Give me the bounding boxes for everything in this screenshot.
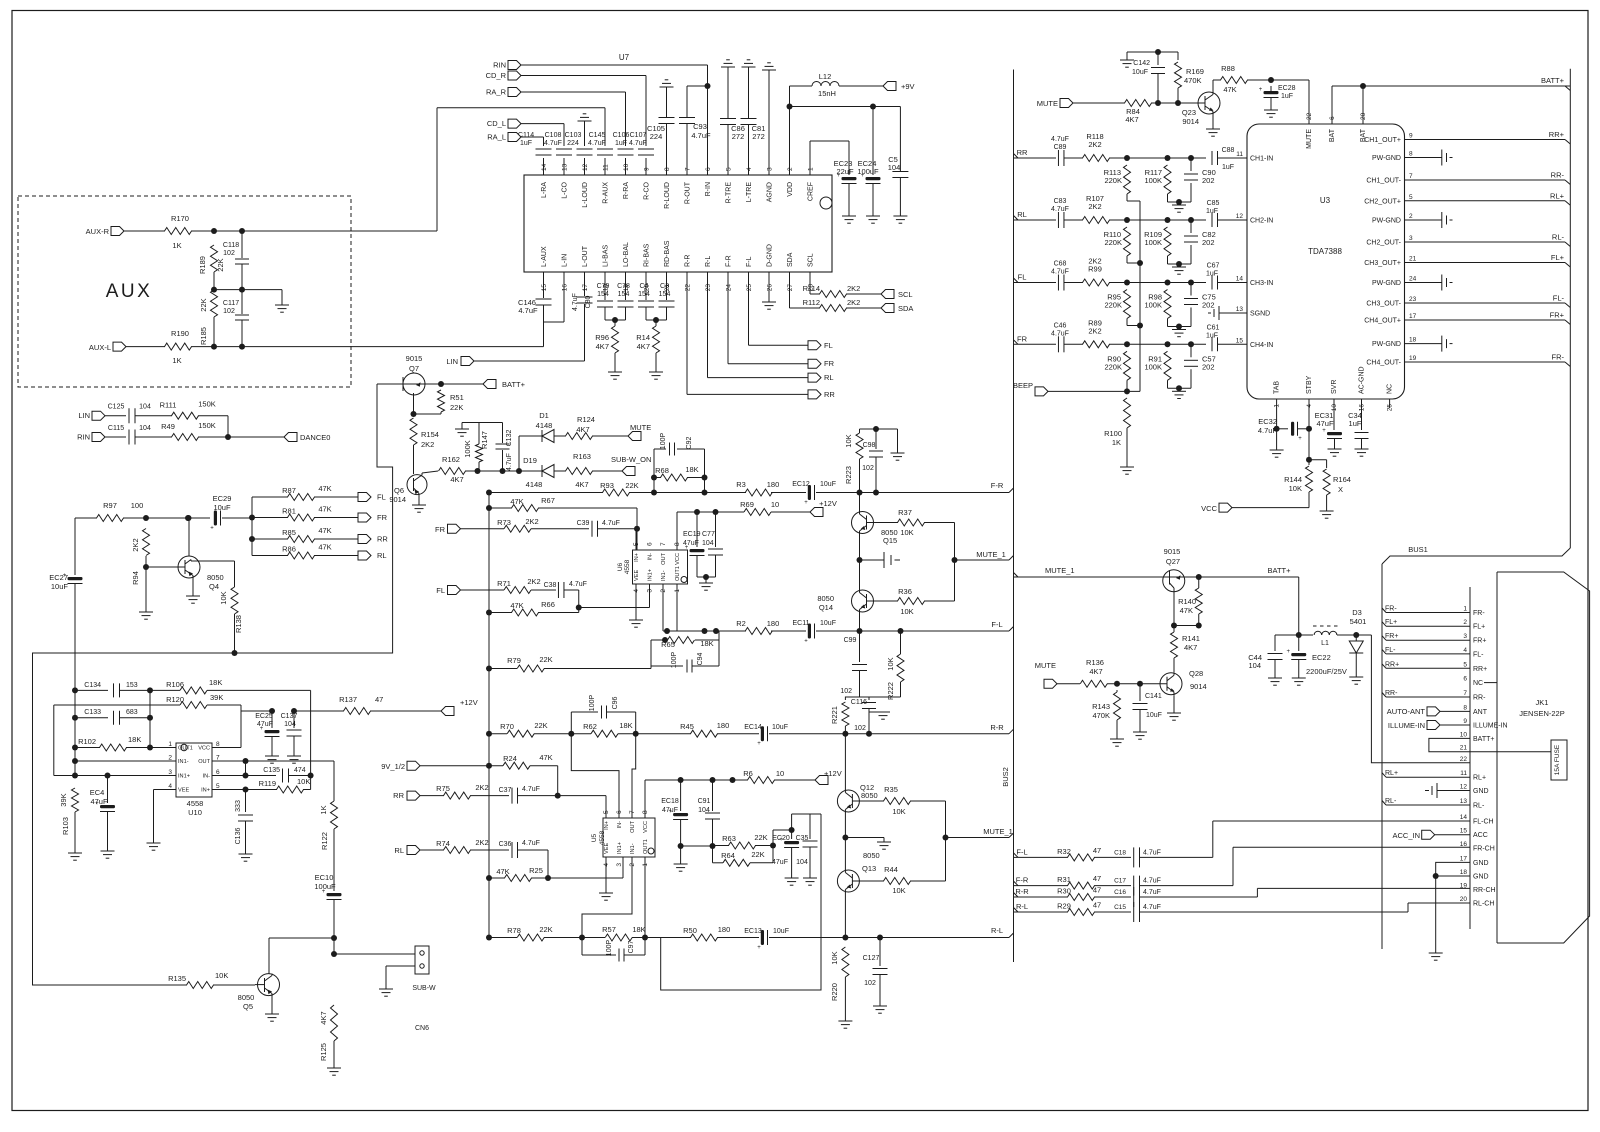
svg-text:10K: 10K [844, 434, 853, 447]
svg-text:104: 104 [796, 859, 808, 866]
svg-text:MUTE_1: MUTE_1 [976, 550, 1006, 559]
svg-text:FL-: FL- [1553, 294, 1565, 303]
svg-text:5: 5 [216, 783, 220, 790]
svg-text:C37: C37 [499, 787, 512, 794]
svg-text:U5: U5 [591, 833, 598, 842]
svg-text:1K: 1K [172, 241, 181, 250]
svg-text:SVR: SVR [1331, 380, 1338, 394]
svg-text:220K: 220K [1104, 176, 1122, 185]
svg-text:47K: 47K [318, 505, 331, 514]
svg-text:MUTE: MUTE [1037, 99, 1058, 108]
svg-text:17: 17 [582, 284, 589, 292]
svg-text:102: 102 [854, 725, 866, 732]
svg-text:C142: C142 [1133, 60, 1150, 67]
svg-text:FL-: FL- [1385, 647, 1396, 654]
svg-text:RR: RR [824, 390, 835, 399]
svg-text:7: 7 [660, 542, 667, 546]
svg-text:C145: C145 [589, 132, 606, 139]
svg-text:R63: R63 [722, 834, 736, 843]
svg-text:333: 333 [235, 800, 242, 812]
svg-text:8: 8 [1409, 151, 1413, 158]
svg-text:+: + [210, 526, 214, 532]
svg-text:9014: 9014 [1182, 117, 1199, 126]
svg-text:L-TRE: L-TRE [746, 182, 753, 203]
svg-text:C89: C89 [1054, 144, 1067, 151]
svg-text:JK1: JK1 [1536, 698, 1549, 707]
svg-text:180: 180 [718, 925, 731, 934]
svg-text:RL-: RL- [1473, 803, 1485, 810]
svg-text:R74: R74 [436, 839, 450, 848]
svg-text:47: 47 [1093, 886, 1101, 895]
svg-text:4.7uF: 4.7uF [1051, 136, 1069, 143]
svg-text:47uF: 47uF [772, 859, 788, 866]
svg-text:R-TRE: R-TRE [726, 182, 733, 204]
svg-text:5401: 5401 [1350, 617, 1367, 626]
svg-text:AUX-R: AUX-R [86, 227, 110, 236]
svg-text:R137: R137 [339, 695, 357, 704]
svg-text:19: 19 [1409, 355, 1417, 362]
svg-text:LIN: LIN [78, 411, 90, 420]
svg-text:R94: R94 [131, 571, 140, 585]
svg-text:L12: L12 [819, 72, 832, 81]
svg-text:C136: C136 [235, 828, 242, 845]
svg-text:R69: R69 [740, 500, 754, 509]
svg-text:4.7uF: 4.7uF [629, 140, 647, 147]
svg-text:10K: 10K [892, 807, 905, 816]
svg-text:104: 104 [139, 404, 151, 411]
svg-text:19: 19 [1460, 882, 1468, 889]
svg-text:1: 1 [808, 167, 815, 171]
svg-text:21: 21 [1460, 745, 1468, 752]
svg-text:17: 17 [1409, 313, 1417, 320]
svg-text:R162: R162 [442, 455, 460, 464]
svg-text:7: 7 [216, 755, 220, 762]
svg-text:R164: R164 [1333, 475, 1351, 484]
svg-text:SGND: SGND [1250, 311, 1270, 318]
svg-text:C94: C94 [697, 652, 704, 665]
svg-text:4.7uF: 4.7uF [1143, 878, 1161, 885]
svg-text:OUT1: OUT1 [675, 566, 681, 581]
svg-text:EC28: EC28 [1278, 85, 1296, 92]
svg-text:22K: 22K [539, 655, 552, 664]
svg-text:14: 14 [1236, 276, 1244, 283]
svg-text:ACC_IN: ACC_IN [1392, 831, 1420, 840]
svg-text:2K2: 2K2 [847, 298, 860, 307]
svg-text:RR+: RR+ [1385, 661, 1399, 668]
svg-text:FR: FR [824, 359, 835, 368]
svg-text:R138: R138 [234, 615, 243, 633]
svg-text:IN1-: IN1- [630, 843, 636, 854]
svg-text:Q23: Q23 [1182, 108, 1196, 117]
svg-text:+: + [757, 741, 761, 747]
svg-text:C125: C125 [108, 404, 125, 411]
svg-text:22uF: 22uF [836, 167, 854, 176]
svg-text:+: + [1322, 428, 1326, 434]
svg-text:4.7uF: 4.7uF [1143, 849, 1161, 856]
svg-text:8: 8 [1463, 704, 1467, 711]
svg-text:SUB-W: SUB-W [412, 985, 436, 992]
svg-text:C127: C127 [863, 955, 880, 962]
svg-text:MUTE: MUTE [1306, 129, 1313, 149]
svg-text:104: 104 [139, 425, 151, 432]
svg-text:EC20: EC20 [772, 835, 790, 842]
svg-text:18: 18 [1409, 337, 1417, 344]
svg-text:F-L: F-L [1016, 847, 1027, 856]
svg-text:C38: C38 [544, 582, 557, 589]
svg-text:C99: C99 [844, 637, 857, 644]
svg-text:R70: R70 [500, 722, 514, 731]
svg-text:R78: R78 [507, 926, 521, 935]
svg-text:8: 8 [216, 741, 220, 748]
svg-text:1uF: 1uF [1349, 419, 1362, 428]
svg-text:R103: R103 [61, 817, 70, 835]
svg-text:39K: 39K [210, 693, 223, 702]
svg-text:CH3-IN: CH3-IN [1250, 280, 1273, 287]
svg-text:R144: R144 [1284, 475, 1302, 484]
svg-text:CH1_OUT-: CH1_OUT- [1366, 178, 1401, 185]
svg-text:8: 8 [664, 167, 671, 171]
svg-text:22K: 22K [199, 298, 208, 311]
svg-text:AUX-L: AUX-L [89, 343, 111, 352]
svg-text:RL+: RL+ [1550, 191, 1565, 200]
svg-text:8050: 8050 [861, 791, 878, 800]
svg-text:MUTE_1: MUTE_1 [1045, 566, 1075, 575]
svg-text:C78: C78 [617, 283, 630, 290]
svg-text:SDA: SDA [787, 252, 794, 267]
svg-text:2K2: 2K2 [527, 577, 540, 586]
svg-text:5: 5 [1409, 194, 1413, 201]
svg-text:CH4_OUT-: CH4_OUT- [1366, 360, 1401, 367]
svg-text:FR+: FR+ [1473, 638, 1486, 645]
svg-text:22K: 22K [216, 258, 225, 271]
svg-text:Q4: Q4 [209, 582, 219, 591]
svg-text:4: 4 [168, 783, 172, 790]
svg-text:4.7uF: 4.7uF [588, 140, 606, 147]
svg-text:R68: R68 [655, 466, 669, 475]
svg-text:DANCE0: DANCE0 [300, 433, 330, 442]
svg-text:224: 224 [650, 132, 663, 141]
svg-text:OUT: OUT [198, 759, 210, 765]
svg-text:IN+: IN+ [634, 553, 640, 562]
svg-text:R140: R140 [1178, 597, 1196, 606]
svg-text:FL: FL [377, 493, 386, 502]
svg-text:PW-GND: PW-GND [1372, 341, 1401, 348]
svg-text:RR-: RR- [1473, 695, 1486, 702]
svg-text:RL-: RL- [1552, 233, 1565, 242]
svg-text:102: 102 [862, 465, 874, 472]
svg-text:4.7uF: 4.7uF [544, 140, 562, 147]
svg-text:C135: C135 [263, 767, 280, 774]
svg-text:FL-: FL- [1473, 651, 1484, 658]
svg-text:FR: FR [1017, 334, 1028, 343]
svg-text:10K: 10K [892, 886, 905, 895]
svg-text:AUX: AUX [106, 281, 153, 302]
svg-text:2K2: 2K2 [1088, 326, 1101, 335]
svg-text:SCL: SCL [898, 290, 913, 299]
svg-text:FL: FL [1018, 273, 1027, 282]
svg-text:L-LOUD: L-LOUD [582, 182, 589, 208]
svg-text:8050: 8050 [817, 594, 834, 603]
svg-text:SUB-W_ON: SUB-W_ON [611, 455, 651, 464]
svg-text:11: 11 [1460, 770, 1467, 777]
svg-text:VEE: VEE [178, 788, 189, 794]
svg-text:4.7uF: 4.7uF [522, 840, 540, 847]
svg-text:R143: R143 [1092, 702, 1110, 711]
svg-text:L-AUX: L-AUX [541, 246, 548, 267]
svg-text:104: 104 [888, 163, 901, 172]
svg-text:PW-GND: PW-GND [1372, 280, 1401, 287]
svg-text:R87: R87 [282, 486, 296, 495]
svg-text:20: 20 [1460, 896, 1468, 903]
svg-text:R64: R64 [721, 851, 735, 860]
svg-text:RR: RR [393, 791, 404, 800]
svg-text:CH4_OUT+: CH4_OUT+ [1364, 318, 1401, 325]
svg-text:R111: R111 [160, 401, 177, 410]
svg-text:R36: R36 [898, 587, 912, 596]
svg-text:MUTE: MUTE [630, 423, 651, 432]
svg-text:C68: C68 [1054, 261, 1067, 268]
svg-text:10uF: 10uF [820, 620, 836, 627]
svg-text:NC: NC [1387, 384, 1394, 394]
svg-text:CH3_OUT+: CH3_OUT+ [1364, 260, 1401, 267]
svg-text:2K2: 2K2 [525, 517, 538, 526]
svg-text:15: 15 [1236, 337, 1244, 344]
svg-text:104: 104 [284, 721, 296, 728]
svg-text:+: + [1298, 436, 1302, 442]
svg-text:47: 47 [1093, 901, 1101, 910]
svg-text:180: 180 [717, 721, 730, 730]
svg-text:15: 15 [1460, 828, 1468, 835]
svg-text:RL-CH: RL-CH [1473, 901, 1494, 908]
svg-text:BUS2: BUS2 [1001, 767, 1010, 787]
svg-text:C134: C134 [84, 682, 101, 689]
svg-text:47K: 47K [318, 543, 331, 552]
svg-text:IN1-: IN1- [178, 759, 189, 765]
svg-text:9V_1/2: 9V_1/2 [381, 762, 405, 771]
svg-text:F-R: F-R [1016, 876, 1029, 885]
svg-text:4.7uF: 4.7uF [1051, 206, 1069, 213]
svg-text:R2: R2 [736, 619, 746, 628]
svg-text:RI-BAS: RI-BAS [644, 243, 651, 267]
svg-text:R-RA: R-RA [623, 182, 630, 199]
svg-text:4.7uF: 4.7uF [691, 131, 711, 140]
svg-text:JENSEN-22P: JENSEN-22P [1519, 709, 1564, 718]
svg-text:16: 16 [1460, 841, 1468, 848]
svg-text:6: 6 [647, 542, 654, 546]
svg-text:18K: 18K [128, 735, 141, 744]
svg-text:2: 2 [1409, 213, 1413, 220]
svg-text:FR: FR [377, 513, 388, 522]
svg-text:47uF: 47uF [90, 797, 108, 806]
svg-text:470K: 470K [1092, 711, 1110, 720]
svg-text:BATT+: BATT+ [1541, 76, 1565, 85]
svg-text:CH2_OUT-: CH2_OUT- [1366, 240, 1401, 247]
svg-text:10K: 10K [1289, 484, 1302, 493]
svg-text:TDA7388: TDA7388 [1308, 247, 1342, 256]
svg-text:IN-: IN- [648, 553, 654, 561]
svg-text:EC11: EC11 [793, 620, 810, 627]
svg-text:C118: C118 [223, 242, 239, 249]
svg-text:10: 10 [776, 769, 784, 778]
svg-text:R96: R96 [595, 333, 609, 342]
svg-text:22K: 22K [534, 721, 547, 730]
svg-text:272: 272 [732, 132, 745, 141]
svg-text:10uF: 10uF [1132, 69, 1148, 76]
svg-text:C16: C16 [1114, 889, 1126, 896]
svg-text:22: 22 [685, 284, 692, 292]
svg-text:R32: R32 [1057, 847, 1071, 856]
svg-text:R136: R136 [1086, 658, 1104, 667]
svg-text:154: 154 [638, 291, 650, 298]
svg-text:ACC: ACC [1473, 832, 1488, 839]
svg-text:C85: C85 [1207, 200, 1220, 207]
svg-text:153: 153 [126, 682, 138, 689]
svg-text:R124: R124 [577, 415, 595, 424]
svg-text:+: + [1259, 87, 1263, 93]
svg-text:102: 102 [864, 980, 876, 987]
svg-text:C137: C137 [281, 713, 298, 720]
svg-text:CD_L: CD_L [487, 119, 506, 128]
svg-text:C35: C35 [796, 835, 809, 842]
svg-text:9: 9 [644, 167, 651, 171]
svg-text:9: 9 [1463, 718, 1467, 725]
svg-text:47: 47 [375, 695, 383, 704]
svg-text:13: 13 [1236, 306, 1244, 313]
svg-text:C79: C79 [597, 283, 610, 290]
svg-text:18K: 18K [685, 465, 698, 474]
svg-text:C108: C108 [545, 132, 562, 139]
svg-text:R125: R125 [319, 1043, 328, 1061]
svg-text:PW-GND: PW-GND [1372, 155, 1401, 162]
svg-text:R-L: R-L [1016, 902, 1028, 911]
svg-text:10K: 10K [215, 971, 228, 980]
svg-text:4.7uF: 4.7uF [1258, 426, 1278, 435]
svg-text:OUT1: OUT1 [178, 746, 193, 752]
svg-text:EC19: EC19 [683, 531, 701, 538]
svg-text:LI-BAS: LI-BAS [603, 244, 610, 267]
svg-text:BEEP: BEEP [1013, 381, 1033, 390]
svg-text:R99: R99 [1088, 265, 1102, 274]
svg-text:4.7uF: 4.7uF [518, 306, 538, 315]
svg-text:RL: RL [1017, 210, 1027, 219]
svg-text:EC32: EC32 [1258, 417, 1277, 426]
svg-text:R51: R51 [450, 393, 464, 402]
svg-text:EC14: EC14 [744, 724, 762, 731]
svg-text:180: 180 [767, 480, 780, 489]
svg-text:C61: C61 [1207, 324, 1220, 331]
svg-text:RR-: RR- [1385, 690, 1398, 697]
svg-text:1uF: 1uF [1206, 271, 1218, 278]
svg-text:R93: R93 [600, 481, 614, 490]
svg-text:RIN: RIN [493, 61, 506, 70]
svg-text:14: 14 [1460, 814, 1468, 821]
svg-text:R25: R25 [529, 866, 543, 875]
svg-text:47uF: 47uF [662, 807, 678, 814]
svg-text:C97: C97 [628, 940, 635, 953]
svg-text:RL: RL [394, 846, 404, 855]
svg-text:8050: 8050 [863, 851, 880, 860]
svg-text:IN-: IN- [203, 774, 211, 780]
svg-text:R73: R73 [497, 518, 511, 527]
svg-text:C15: C15 [1114, 904, 1126, 911]
svg-text:C88: C88 [1222, 147, 1235, 154]
svg-text:7: 7 [629, 810, 636, 814]
svg-text:100P: 100P [671, 652, 678, 669]
svg-text:22: 22 [1460, 756, 1468, 763]
svg-text:47K: 47K [318, 484, 331, 493]
svg-text:9015: 9015 [1164, 547, 1181, 556]
svg-text:17: 17 [1460, 855, 1468, 862]
svg-text:R122: R122 [320, 832, 329, 850]
svg-text:Q27: Q27 [1166, 557, 1180, 566]
svg-text:R147: R147 [480, 431, 489, 449]
svg-text:47uF: 47uF [1316, 419, 1334, 428]
svg-text:BAT: BAT [1329, 128, 1336, 142]
svg-text:L-RA: L-RA [541, 182, 548, 198]
svg-text:10K: 10K [900, 528, 913, 537]
svg-text:11: 11 [1236, 151, 1243, 158]
svg-text:EC13: EC13 [744, 928, 762, 935]
svg-text:22K: 22K [539, 925, 552, 934]
svg-text:27: 27 [787, 284, 794, 292]
svg-text:4.7uF: 4.7uF [602, 520, 620, 527]
svg-text:RA_L: RA_L [487, 133, 506, 142]
svg-text:Q13: Q13 [862, 864, 876, 873]
svg-text:R-L: R-L [705, 256, 712, 267]
svg-text:Q14: Q14 [819, 603, 833, 612]
svg-text:C93: C93 [693, 122, 707, 131]
svg-text:47K: 47K [539, 753, 552, 762]
svg-text:24: 24 [1409, 276, 1417, 283]
svg-text:104: 104 [698, 807, 710, 814]
svg-text:R67: R67 [541, 496, 555, 505]
svg-text:RR: RR [1017, 148, 1028, 157]
svg-text:R120: R120 [166, 695, 184, 704]
svg-text:4.7uF: 4.7uF [506, 453, 513, 471]
svg-text:C46: C46 [1054, 322, 1067, 329]
svg-text:47K: 47K [1180, 606, 1193, 615]
svg-text:R66: R66 [541, 600, 555, 609]
svg-text:4: 4 [746, 167, 753, 171]
svg-text:VEE: VEE [634, 570, 640, 581]
svg-text:1uF: 1uF [1281, 93, 1293, 100]
svg-text:BUS1: BUS1 [1408, 545, 1428, 554]
svg-text:+12V: +12V [824, 769, 842, 778]
svg-text:RL+: RL+ [1473, 775, 1486, 782]
svg-text:VCC: VCC [643, 821, 649, 833]
svg-text:C96: C96 [612, 696, 619, 709]
svg-text:R-R: R-R [1015, 887, 1029, 896]
svg-text:R170: R170 [171, 214, 189, 223]
svg-text:Q5: Q5 [243, 1002, 253, 1011]
svg-text:R102: R102 [78, 737, 96, 746]
svg-text:10uF: 10uF [772, 724, 788, 731]
svg-text:OUT: OUT [630, 820, 636, 832]
svg-text:R14: R14 [636, 333, 650, 342]
svg-text:LO-BAL: LO-BAL [623, 242, 630, 267]
svg-text:F-R: F-R [726, 255, 733, 267]
svg-text:C18: C18 [1114, 849, 1126, 856]
svg-text:16: 16 [562, 284, 569, 292]
svg-text:10: 10 [1460, 731, 1468, 738]
svg-text:15nH: 15nH [818, 89, 836, 98]
svg-text:FR-: FR- [1385, 606, 1397, 613]
svg-text:U6: U6 [617, 562, 624, 571]
svg-text:C36: C36 [499, 841, 512, 848]
svg-text:C83: C83 [1054, 198, 1067, 205]
svg-text:RR: RR [377, 535, 388, 544]
svg-text:+: + [1286, 649, 1290, 655]
